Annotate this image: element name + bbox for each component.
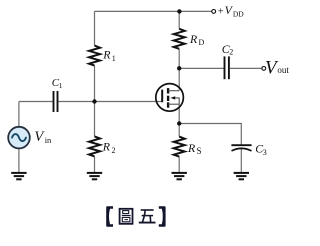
wire R1 to gate node bbox=[94, 66, 96, 102]
svg-text:2: 2 bbox=[112, 146, 116, 155]
terminal Vout open circle bbox=[262, 67, 266, 71]
wire C1 to gate bbox=[58, 101, 162, 103]
wire C2 to Vout bbox=[230, 67, 262, 69]
transistor Q1 body tie with arrow line bbox=[175, 98, 180, 104]
transistor Q1 drain stub bbox=[169, 90, 180, 92]
label Vout bbox=[265, 57, 289, 78]
wire RD branch upper bbox=[178, 11, 180, 28]
node: source junction bbox=[177, 121, 181, 125]
label C3 bbox=[255, 142, 267, 157]
label Vin bbox=[34, 129, 52, 145]
wire top rail bbox=[95, 10, 212, 12]
ground (Vin) bbox=[11, 173, 26, 179]
caption character 五 bbox=[139, 210, 156, 223]
svg-text:1: 1 bbox=[112, 54, 116, 63]
source Vin circle bbox=[8, 127, 30, 149]
svg-text:out: out bbox=[277, 65, 289, 75]
svg-text:+: + bbox=[218, 7, 224, 18]
wire gate lead bbox=[19, 101, 53, 103]
source Vin sine wave bbox=[12, 134, 26, 141]
transistor Q1 MOSFET circle bbox=[156, 84, 184, 112]
terminal +VDD open circle bbox=[212, 10, 216, 14]
node: drain junction bbox=[177, 66, 181, 70]
resistor R2 bbox=[89, 136, 100, 156]
wire source lead bbox=[178, 104, 180, 123]
wire R2 to ground bbox=[94, 156, 96, 172]
wire C3 to ground bbox=[240, 149, 242, 172]
svg-text:1: 1 bbox=[59, 81, 63, 90]
capacitor C2 bbox=[225, 56, 229, 79]
svg-text:D: D bbox=[199, 38, 205, 47]
label RD bbox=[189, 32, 205, 47]
svg-text:in: in bbox=[45, 135, 52, 145]
svg-text:R: R bbox=[102, 139, 111, 153]
wire source node to RS bbox=[178, 124, 180, 137]
svg-text:R: R bbox=[102, 48, 111, 62]
wire R1 branch upper bbox=[94, 11, 96, 45]
svg-text:2: 2 bbox=[229, 48, 233, 57]
svg-text:3: 3 bbox=[263, 148, 267, 157]
label +VDD bbox=[218, 3, 245, 18]
resistor RS bbox=[174, 137, 185, 157]
label R1 bbox=[102, 48, 116, 63]
wire Vin to ground bbox=[18, 149, 20, 172]
caption character 圖 bbox=[120, 209, 133, 224]
transistor Q1 channel bar top bbox=[167, 88, 169, 93]
transistor Q1 gate bar bbox=[161, 90, 163, 103]
transistor Q1 arrowhead bbox=[170, 96, 175, 99]
svg-text:R: R bbox=[187, 141, 196, 155]
node: gate junction bbox=[92, 99, 96, 103]
label R2 bbox=[102, 139, 116, 154]
transistor Q1 channel bar middle bbox=[167, 96, 169, 101]
wire RD to drain bbox=[178, 49, 180, 91]
label C1 bbox=[52, 77, 63, 90]
transistor Q1 source stub bbox=[169, 103, 180, 105]
ground (R2) bbox=[87, 173, 102, 179]
caption bracket right 】 bbox=[159, 206, 166, 227]
svg-text:R: R bbox=[189, 32, 198, 46]
capacitor C1 bbox=[54, 91, 58, 112]
label C2 bbox=[222, 42, 233, 57]
ground (C3) bbox=[234, 173, 249, 179]
transistor Q1 channel bar bottom bbox=[167, 102, 169, 107]
capacitor C3 bbox=[231, 145, 251, 151]
resistor RD bbox=[174, 29, 185, 49]
resistor R1 bbox=[89, 46, 100, 66]
caption bracket left 【 bbox=[106, 206, 113, 227]
label RS bbox=[187, 141, 202, 156]
wire source node to C3 bbox=[179, 124, 241, 145]
wire drain node to C2 bbox=[179, 67, 223, 69]
ground (RS) bbox=[172, 173, 187, 179]
node: top rail junction bbox=[177, 9, 181, 13]
svg-text:S: S bbox=[197, 146, 202, 156]
wire RS to ground bbox=[178, 157, 180, 173]
wire Vin branch bbox=[18, 102, 20, 127]
svg-text:DD: DD bbox=[233, 9, 244, 18]
wire gate node to R2 bbox=[94, 102, 96, 137]
